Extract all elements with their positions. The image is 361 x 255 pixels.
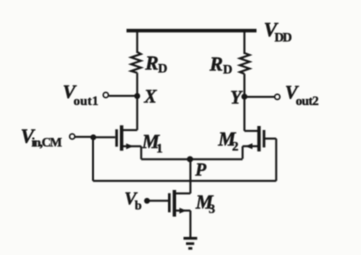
terminal circle Vout2 — [275, 94, 280, 99]
svg-text:3: 3 — [209, 201, 216, 216]
svg-text:D: D — [158, 61, 167, 76]
svg-text:X: X — [143, 88, 157, 108]
svg-text:D: D — [223, 62, 232, 77]
wire: Vin,CM terminal to gate junction — [75, 136, 93, 138]
wire: RD2 to node Y — [243, 74, 245, 97]
wire: M2 gate bar to loop — [265, 138, 276, 140]
M1 source down wire — [140, 146, 142, 159]
M3 source arrow — [179, 208, 186, 214]
terminal circle Vout1 — [103, 92, 108, 97]
wire: node P down to M3 drain — [189, 159, 191, 193]
transistor M3 gate bar — [168, 193, 171, 212]
tail wire M1 source to M2 source through node P — [141, 158, 242, 160]
M1 drain stub — [123, 129, 138, 131]
wire: RD1 to node X — [136, 73, 138, 96]
wire: junction to M1 gate — [93, 136, 115, 138]
transistor M1 channel bar — [120, 125, 123, 150]
svg-text:out2: out2 — [296, 93, 319, 108]
M1 source stub — [123, 145, 142, 147]
VDD power rail — [127, 29, 257, 33]
svg-text:DD: DD — [275, 30, 293, 45]
M3 source stub — [175, 210, 190, 212]
svg-text:in,CM: in,CM — [32, 135, 63, 150]
transistor M2 gate bar — [263, 130, 266, 147]
ground symbol — [184, 237, 198, 240]
svg-text:1: 1 — [156, 141, 163, 156]
wire: junction down left leg of gate loop — [92, 137, 94, 181]
M2 source down wire — [242, 146, 244, 159]
terminal circle Vin,CM — [70, 134, 75, 139]
wire: node Y down to M2 drain — [243, 97, 245, 131]
M3 drain stub — [175, 192, 190, 194]
transistor M3 channel bar — [173, 190, 176, 217]
svg-text:Y: Y — [230, 88, 243, 108]
M2 drain stub — [244, 130, 258, 132]
M1 source arrow — [126, 143, 133, 149]
wire: Vout1 terminal to node X — [109, 95, 135, 97]
transistor M1 gate bar — [115, 129, 118, 146]
svg-text:2: 2 — [232, 138, 239, 153]
wire: gate loop bottom — [93, 180, 276, 182]
wire: node X down to M1 drain — [136, 96, 138, 130]
wire: Vb terminal to M3 gate — [147, 200, 168, 202]
resistor RD2 — [240, 53, 250, 74]
resistor RD1 — [131, 52, 141, 73]
node X dot — [134, 93, 140, 99]
Vb terminal dot — [144, 198, 150, 204]
M3 source down wire to ground — [189, 211, 191, 237]
node P dot — [187, 156, 193, 162]
gate junction dot — [90, 134, 96, 140]
M2 source arrow — [245, 143, 252, 149]
svg-text:R: R — [209, 54, 223, 76]
wire: node Y to Vout2 terminal — [244, 96, 274, 98]
wire: gate loop right leg up to M2 gate — [275, 139, 277, 181]
M2 source stub — [243, 145, 259, 147]
svg-text:P: P — [194, 160, 207, 180]
svg-text:b: b — [135, 199, 142, 213]
svg-text:R: R — [144, 52, 158, 74]
transistor M2 channel bar — [257, 126, 260, 151]
wire: rail to RD2 — [243, 32, 245, 54]
wire: rail to RD1 — [136, 32, 138, 53]
svg-text:out1: out1 — [74, 93, 99, 108]
node Y dot — [241, 94, 247, 100]
